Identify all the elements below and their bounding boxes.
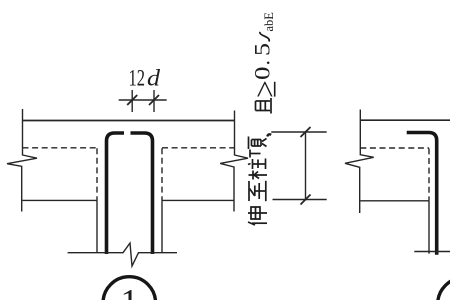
detail circle 2 (partial)	[438, 278, 450, 300]
dimension extension line left	[131, 90, 133, 112]
svg-text:5: 5	[250, 43, 275, 56]
hanzi shen (extend)	[248, 207, 267, 225]
right detail: rebar with 90-degree hook	[407, 133, 437, 255]
beam bottom line left segment	[23, 199, 98, 201]
hanzi zhi (to)	[249, 181, 266, 201]
right detail: beam bottom line	[360, 200, 429, 202]
right detail: column edge below beam	[428, 201, 430, 254]
svg-text:d: d	[147, 66, 161, 91]
beam bottom line right segment	[162, 199, 235, 201]
svg-text:≥: ≥	[247, 80, 283, 98]
beam top hidden line right segment	[162, 147, 235, 149]
top extension line	[271, 131, 326, 133]
vertical dim tick top	[301, 127, 311, 137]
dimension line 12d	[119, 99, 167, 101]
dimension extension line right	[153, 90, 155, 112]
svg-text:0: 0	[250, 67, 275, 81]
right detail: beam top hidden line	[360, 147, 429, 149]
right detail: column edge hidden in beam	[428, 148, 430, 200]
svg-text:.: .	[250, 60, 275, 66]
text l italic (script ell)	[260, 32, 270, 42]
beam top hidden line left segment	[23, 147, 98, 149]
vertical dim tick bottom	[301, 195, 311, 205]
column left edge below beam	[96, 200, 98, 252]
column right edge hidden in beam	[161, 148, 163, 200]
svg-text:1: 1	[121, 282, 139, 300]
right detail: column top edge line	[360, 119, 450, 121]
column bottom cut line with break symbol	[68, 243, 177, 266]
hanzi zhu (column)	[248, 159, 267, 180]
right rebar with 90-degree hook	[131, 133, 153, 254]
bottom extension line	[273, 199, 327, 201]
dimension tick left	[127, 95, 137, 105]
svg-text:abE: abE	[262, 12, 276, 32]
left rebar with 90-degree hook	[107, 133, 125, 254]
column top edge line (detail 1)	[23, 120, 235, 122]
hanzi ding (top)	[249, 137, 267, 158]
detail circle 1	[103, 277, 156, 300]
comma	[267, 134, 271, 136]
right detail: column bottom cut line	[414, 251, 450, 253]
right detail: left boundary line with break symbol	[345, 110, 374, 214]
left boundary line with break symbol	[7, 109, 37, 212]
svg-text:12: 12	[129, 66, 146, 91]
column left edge hidden in beam	[96, 148, 98, 200]
vertical dimension line (0.5labE)	[305, 132, 307, 200]
column right edge below beam	[161, 200, 163, 252]
right boundary line with break symbol (detail 1)	[220, 111, 248, 212]
hanzi qie (and)	[256, 98, 272, 114]
rotated note text: extend to column top, >=0.5 labE	[247, 12, 283, 225]
dimension tick right	[149, 95, 159, 105]
